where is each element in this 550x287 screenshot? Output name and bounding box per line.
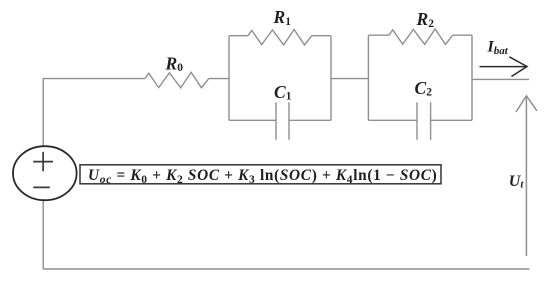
capacitor C1 [276,102,289,140]
resistor R1 [248,30,312,45]
svg-text:C2: C2 [415,78,433,99]
svg-text:Ibat: Ibat [487,39,509,57]
wire RC1 top left [229,35,248,37]
wire bottom horizontal [43,268,529,270]
wire RC1 bottom left [229,119,276,121]
arrow U_t [516,96,537,256]
wire RC1 to RC2 [331,78,368,80]
svg-text:Uoc = K0 + K2 SOC + K3 ln(SOC): Uoc = K0 + K2 SOC + K3 ln(SOC) + K4ln(1 … [88,167,437,186]
svg-text:Ut: Ut [509,173,525,191]
svg-text:R1: R1 [273,7,292,28]
voltage source U_oc circle [13,146,77,200]
wire R0 to RC1 [209,78,229,80]
resistor R2 [389,29,453,44]
wire RC1 top right [312,35,331,37]
equation box [80,165,441,184]
wire RC2 top left [368,34,389,36]
plus sign [33,152,53,171]
arrow I_bat [480,57,528,77]
wire RC2 to right terminal [472,78,529,80]
wire RC2 top right [453,34,472,36]
minus sign [33,186,50,188]
resistor R0 [145,72,209,87]
node RC2 right edge [471,35,473,120]
wire RC1 bottom right [289,119,331,121]
wire top-left horizontal [43,79,145,146]
wire RC2 bottom right [431,119,472,121]
svg-text:R0: R0 [165,53,184,74]
node RC2 left edge [367,35,369,120]
wire RC2 bottom left [368,119,417,121]
svg-text:C1: C1 [274,82,292,103]
svg-text:R2: R2 [416,9,435,30]
node RC1 right edge [330,36,332,121]
node RC1 left edge [228,36,230,121]
capacitor C2 [417,102,431,140]
wire source bottom vertical [42,201,44,270]
